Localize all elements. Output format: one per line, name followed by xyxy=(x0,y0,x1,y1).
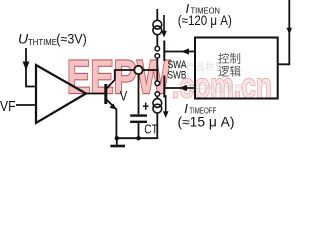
arrowhead SWA control xyxy=(181,48,189,54)
junction dot emitter ground xyxy=(115,136,119,140)
wire top rail xyxy=(156,9,158,20)
wire VF input xyxy=(16,104,36,106)
current source ITIMEOFF xyxy=(153,99,162,113)
plus polarity mark xyxy=(143,103,149,110)
label control logic xyxy=(218,52,241,79)
op-amp comparator xyxy=(36,65,86,123)
capacitor CT xyxy=(130,116,147,122)
node circle CT pin xyxy=(134,66,142,74)
junction dot capacitor bottom xyxy=(136,136,140,140)
arrowhead control input xyxy=(287,28,293,35)
switch SWB blade xyxy=(163,76,165,98)
svg-text:V: V xyxy=(120,87,128,103)
label UTHTIME value xyxy=(18,31,87,48)
svg-text:(≈15 μ A): (≈15 μ A) xyxy=(178,115,235,130)
ground xyxy=(110,138,125,146)
wire node down to capacitor xyxy=(138,74,140,114)
label ITIMEOFF xyxy=(178,101,235,130)
svg-text:THTIME: THTIME xyxy=(28,37,57,47)
switch SWB contacts xyxy=(155,81,160,86)
wire rail between switches xyxy=(156,58,158,81)
svg-text:逻辑: 逻辑 xyxy=(218,65,241,79)
wire rail to ITIMEOFF xyxy=(156,96,158,99)
wire bottom rail xyxy=(117,137,158,139)
wire emitter down xyxy=(115,109,117,139)
wire capacitor bottom xyxy=(138,123,140,138)
switch SWA blade xyxy=(163,41,165,62)
arrowhead down on UTHTIME wire xyxy=(23,62,30,71)
svg-text:SWB: SWB xyxy=(168,70,187,82)
wire collector up to node xyxy=(115,70,135,80)
transistor V xyxy=(106,80,116,109)
svg-text:(≈120 μ A): (≈120 μ A) xyxy=(178,13,232,28)
arrowhead SWB control xyxy=(179,85,187,91)
control logic box xyxy=(195,38,278,99)
svg-text:(≈3V): (≈3V) xyxy=(56,32,87,47)
arrow ITIMEON direction xyxy=(161,15,167,38)
wire SWB control from logic xyxy=(164,87,195,89)
wire node to rail xyxy=(143,69,158,71)
emitter arrowhead xyxy=(109,103,116,109)
wire SWA control from logic xyxy=(164,51,195,53)
svg-text:CT: CT xyxy=(144,123,158,137)
wire rail ITIMEOFF to bottom xyxy=(156,113,158,139)
svg-text:VF: VF xyxy=(0,98,16,115)
svg-text:控制: 控制 xyxy=(218,52,241,66)
wire rail to switch A xyxy=(156,35,158,47)
wire UTHTIME input with arrow xyxy=(26,48,36,87)
wire control logic input from top xyxy=(278,0,290,64)
switch SWA contacts xyxy=(155,46,160,51)
current source ITIMEON xyxy=(153,20,162,34)
wire comparator output to base xyxy=(86,93,105,95)
arrow ITIMEOFF direction xyxy=(163,95,169,118)
label ITIMEON xyxy=(178,1,232,28)
